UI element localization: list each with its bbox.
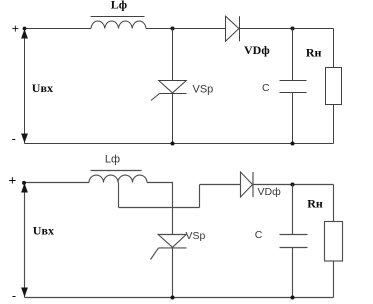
- thyristor VSp (bottom) gate: [151, 248, 159, 260]
- wire inductor to corner then down (bottom): [147, 183, 173, 235]
- wire capacitor top lead: [292, 29, 294, 81]
- node G (capacitor/bottom rail bottom): [291, 296, 295, 300]
- source Uвх arrowhead down (top): [21, 134, 28, 144]
- thyristor VSp (bottom) triangle: [158, 235, 186, 248]
- capacitor C (top) upper plate: [280, 80, 307, 82]
- node F (thyristor/bottom rail bottom): [171, 296, 175, 300]
- svg-text:VSp: VSp: [193, 84, 214, 96]
- svg-text:VDф: VDф: [258, 186, 282, 198]
- resistor Rн (top) body: [326, 68, 342, 105]
- diode VDф (bottom) triangle: [241, 172, 253, 197]
- thyristor VSp (top) triangle: [159, 81, 187, 93]
- node C1 (thyristor/bottom rail): [171, 142, 175, 146]
- diode VDф (top) triangle: [226, 16, 239, 41]
- node A (inductor/thyristor junction): [171, 27, 175, 31]
- source Uвх arrowhead up (bottom): [21, 183, 28, 193]
- node B (capacitor junction top): [291, 27, 295, 31]
- wire tap horizontal: [119, 207, 200, 209]
- source Uвх arrow line (top circuit): [24, 29, 26, 144]
- capacitor C (bottom) upper plate: [280, 234, 308, 236]
- svg-text:C: C: [255, 229, 263, 241]
- source Uвх arrowhead up (top): [21, 29, 28, 39]
- svg-text:Lф: Lф: [105, 153, 120, 165]
- thyristor VSp (top) cathode bar: [160, 93, 187, 95]
- wire thyristor cathode (bottom): [172, 248, 174, 298]
- thyristor VSp (top) gate: [151, 94, 160, 101]
- wire bottom rail (top circuit): [25, 143, 334, 145]
- capacitor C (top) lower plate: [280, 92, 307, 94]
- wire riser to diode (bottom): [200, 184, 241, 186]
- wire tap riser: [199, 185, 201, 208]
- wire top rail left (bottom circuit): [25, 182, 90, 184]
- thyristor VSp (bottom) cathode bar: [159, 247, 187, 249]
- wire capacitor top lead (bottom): [292, 185, 294, 235]
- inductor L2 (Lф bottom) coil: [89, 175, 147, 182]
- wire inductor tap down: [118, 183, 120, 208]
- svg-text:Rн: Rн: [307, 197, 323, 211]
- wire capacitor bottom lead (bottom): [292, 248, 294, 298]
- source Uвх arrowhead down (bottom): [21, 288, 28, 298]
- svg-text:VSp: VSp: [186, 230, 206, 242]
- node topleft junction (bottom): [22, 181, 26, 185]
- diode VDф (top) cathode bar: [239, 16, 241, 41]
- wire right branch top (bottom): [333, 185, 335, 222]
- inductor L1 core bar: [91, 16, 145, 18]
- svg-text:Rн: Rн: [306, 46, 322, 60]
- wire capacitor bottom lead: [292, 93, 294, 144]
- wire right branch top corner: [333, 29, 335, 68]
- node D (capacitor/bottom rail): [291, 142, 295, 146]
- svg-text:+: +: [8, 174, 16, 189]
- svg-text:+: +: [12, 21, 19, 36]
- svg-text:Lф: Lф: [111, 0, 127, 11]
- inductor L2 core bar: [91, 170, 142, 172]
- wire top rail middle (inductor to diode): [146, 28, 226, 30]
- wire diode to corner (bottom): [253, 184, 334, 186]
- capacitor C (bottom) lower plate: [280, 247, 308, 249]
- node topleft junction: [23, 27, 27, 31]
- inductor L1 (Lф top) coil: [91, 21, 146, 29]
- svg-text:Uвх: Uвх: [33, 224, 54, 238]
- wire top rail right (diode to corner): [240, 28, 334, 30]
- diode VDф (bottom) cathode bar: [252, 172, 254, 197]
- svg-text:C: C: [262, 82, 270, 94]
- source Uвх arrow line (bottom circuit): [24, 183, 26, 298]
- svg-text:-: -: [12, 289, 16, 303]
- node E (capacitor junction bottom circuit): [291, 183, 295, 187]
- wire thyristor anode: [172, 29, 174, 81]
- wire top rail left: [25, 28, 92, 30]
- wire right branch bottom: [333, 105, 335, 144]
- svg-text:-: -: [12, 132, 16, 146]
- svg-text:VDф: VDф: [244, 43, 270, 57]
- wire right branch bottom (bottom): [333, 261, 335, 298]
- wire thyristor cathode: [172, 94, 174, 144]
- wire bottom rail (bottom circuit): [25, 297, 334, 299]
- resistor Rн (bottom) body: [325, 222, 343, 262]
- svg-text:Uвх: Uвх: [32, 81, 53, 95]
